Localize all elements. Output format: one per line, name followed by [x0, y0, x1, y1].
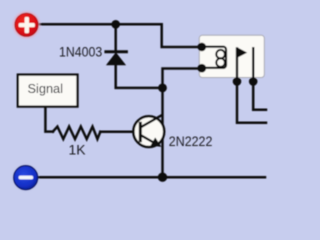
svg-text:2N2222: 2N2222	[169, 134, 213, 149]
wire relay fixed contact down then right	[253, 82, 266, 110]
diode D1 1N4003 cathode bar	[104, 50, 128, 53]
diode D1 1N4003 triangle	[106, 52, 126, 65]
plus supply terminal red circle	[15, 13, 38, 36]
minus supply terminal halo	[12, 163, 40, 191]
relay K1 body box	[199, 35, 264, 77]
relay coil terminal node bottom	[198, 64, 207, 73]
svg-text:1K: 1K	[69, 143, 86, 158]
relay contact terminal node right	[249, 77, 258, 86]
transistor Q1 base bar	[139, 122, 142, 142]
minus sign	[19, 176, 34, 180]
relay coil wire frame	[202, 47, 226, 68]
transistor Q1 collector diagonal	[141, 115, 163, 127]
node junction diode / collector	[158, 84, 167, 93]
wire top rail from + to corner then down to relay coil top terminal	[34, 24, 200, 47]
signal source box	[18, 75, 78, 107]
relay armature arrow flag	[237, 47, 247, 58]
node junction emitter / bottom rail	[158, 173, 167, 182]
transistor Q1 emitter diagonal with arrow	[141, 135, 158, 145]
plus supply terminal glow	[12, 10, 42, 40]
relay coil terminal node top	[198, 43, 207, 52]
wire collector node: relay coil bottom terminal to vertical collector-emitter line down to bottom rail	[163, 69, 201, 178]
relay coil loop 1	[216, 50, 225, 59]
minus supply terminal blue circle	[14, 166, 38, 190]
wire resistor to transistor base	[100, 131, 134, 134]
resistor R1 1K zigzag	[53, 127, 100, 139]
relay contact terminal node left	[233, 77, 242, 86]
relay coil loop 2	[216, 58, 225, 67]
node junction top rail / diode	[111, 20, 120, 29]
transistor Q1 circle	[133, 116, 164, 147]
wire bottom rail from - to right end	[34, 176, 265, 179]
plus sign	[19, 23, 35, 27]
wire signal box down to resistor lead	[45, 107, 53, 132]
relay fixed contact line	[252, 47, 254, 82]
wire relay contact armature down then right	[237, 82, 266, 123]
svg-text:1N4003: 1N4003	[59, 45, 102, 60]
svg-text:Signal: Signal	[28, 81, 64, 96]
wire diode branch: down from top rail to diode	[114, 24, 117, 51]
relay armature line	[236, 47, 238, 81]
wire from diode anode down then right to collector node	[116, 65, 163, 88]
